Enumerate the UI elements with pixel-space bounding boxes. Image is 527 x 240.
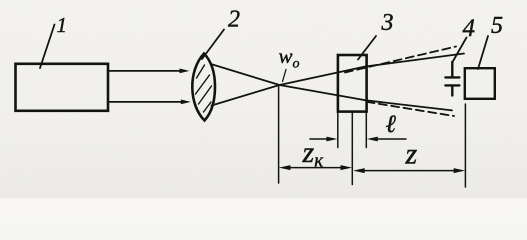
leader 5 bbox=[478, 36, 488, 69]
leader 4 bbox=[453, 38, 467, 63]
aperture 4 bbox=[445, 62, 459, 96]
detector box 5 bbox=[465, 68, 495, 99]
dimension l left arrow bbox=[310, 138, 330, 140]
extension line crystal left edge bbox=[337, 112, 339, 148]
leader 1 bbox=[40, 25, 55, 69]
crystal box 3 bbox=[338, 55, 367, 112]
leader 2 bbox=[202, 30, 224, 60]
svg-text:3: 3 bbox=[381, 10, 394, 36]
leader 3 bbox=[358, 36, 376, 60]
svg-text:z: z bbox=[405, 138, 418, 171]
svg-text:2: 2 bbox=[228, 7, 240, 33]
dashed undisturbed ray lower bbox=[367, 102, 455, 116]
converging ray lower (lens to waist) bbox=[212, 85, 280, 106]
converging ray upper (lens to waist) bbox=[213, 65, 280, 86]
extension line at waist bbox=[278, 86, 280, 183]
beam ray upper (box to lens) bbox=[108, 70, 182, 72]
lens 2 bbox=[192, 54, 215, 121]
dimension z_k bbox=[284, 167, 347, 169]
diverging ray lower (waist to crystal) bbox=[280, 85, 366, 100]
svg-text:ℓ: ℓ bbox=[386, 111, 397, 138]
svg-text:5: 5 bbox=[491, 13, 503, 39]
dimension z bbox=[358, 170, 460, 172]
diverging ray upper (waist to crystal) bbox=[280, 66, 367, 85]
lens hatching bbox=[196, 65, 212, 112]
laser box 1 bbox=[16, 64, 109, 111]
svg-text:4: 4 bbox=[463, 15, 476, 42]
refracted solid ray lower bbox=[366, 100, 453, 110]
leader w0 bbox=[283, 70, 287, 82]
dashed undisturbed ray upper bbox=[345, 47, 456, 73]
dimension l right arrow bbox=[374, 138, 406, 140]
refracted solid ray upper bbox=[367, 54, 465, 67]
extension line crystal centre bbox=[351, 112, 353, 185]
svg-text:1: 1 bbox=[57, 13, 68, 37]
beam ray lower (box to lens) bbox=[108, 101, 184, 103]
extension line aperture plane bbox=[464, 104, 466, 187]
extension line crystal right edge bbox=[365, 112, 367, 148]
